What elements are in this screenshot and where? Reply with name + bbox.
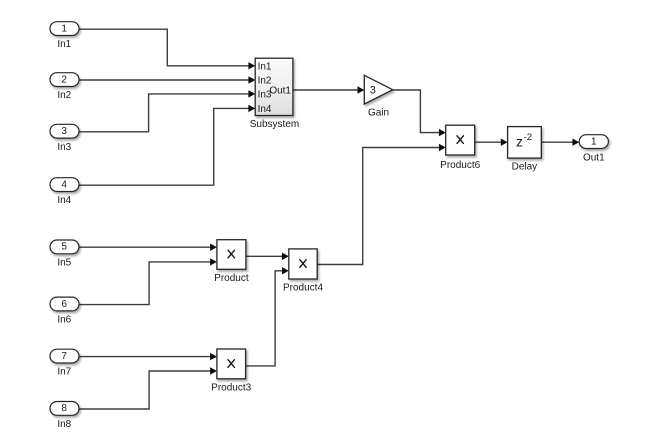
svg-text:4: 4 xyxy=(61,179,67,190)
svg-text:Subsystem: Subsystem xyxy=(250,119,299,130)
svg-text:1: 1 xyxy=(591,136,597,147)
svg-text:Product: Product xyxy=(214,273,249,284)
svg-text:In4: In4 xyxy=(258,104,272,115)
svg-text:1: 1 xyxy=(61,23,67,34)
svg-text:In5: In5 xyxy=(57,258,71,269)
svg-text:Product3: Product3 xyxy=(211,383,251,394)
svg-text:Product4: Product4 xyxy=(283,283,323,294)
svg-text:Gain: Gain xyxy=(368,108,389,119)
svg-text:5: 5 xyxy=(61,242,67,253)
svg-text:Out1: Out1 xyxy=(269,85,291,96)
svg-text:3: 3 xyxy=(61,126,67,137)
svg-text:-2: -2 xyxy=(524,132,533,143)
svg-text:In8: In8 xyxy=(57,419,71,430)
svg-text:Product6: Product6 xyxy=(440,160,480,171)
svg-text:In3: In3 xyxy=(57,142,71,153)
svg-text:z: z xyxy=(516,133,523,149)
svg-text:In1: In1 xyxy=(258,61,272,72)
svg-text:Out1: Out1 xyxy=(583,152,605,163)
svg-text:In7: In7 xyxy=(57,367,71,378)
svg-text:In1: In1 xyxy=(57,39,71,50)
svg-text:Delay: Delay xyxy=(512,161,538,172)
svg-text:In6: In6 xyxy=(57,315,71,326)
svg-text:In4: In4 xyxy=(57,195,71,206)
svg-text:7: 7 xyxy=(61,351,67,362)
svg-text:3: 3 xyxy=(370,85,376,97)
svg-text:8: 8 xyxy=(61,403,67,414)
svg-text:In2: In2 xyxy=(57,90,71,101)
svg-text:2: 2 xyxy=(61,74,67,85)
svg-text:6: 6 xyxy=(61,299,67,310)
